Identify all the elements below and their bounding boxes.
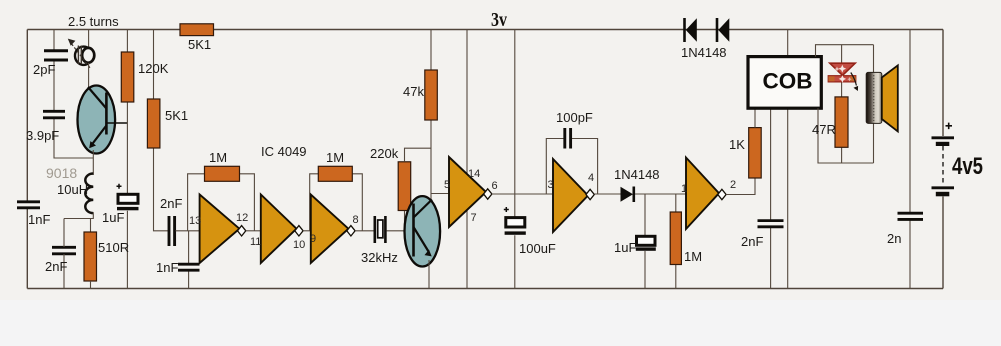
inverter U1A (pins 13,12): [200, 195, 246, 264]
svg-text:100pF: 100pF: [556, 110, 593, 125]
svg-text:100uF: 100uF: [519, 241, 556, 256]
capacitor C 2nF (right): [758, 221, 784, 227]
capacitor C 100pF: [565, 128, 571, 149]
resistor R 120K: [121, 52, 134, 102]
svg-text:11: 11: [250, 236, 261, 248]
resistor R 1M (third): [670, 212, 681, 265]
svg-text:1N4148: 1N4148: [681, 45, 727, 60]
svg-text:14: 14: [468, 168, 480, 180]
svg-text:1: 1: [681, 183, 687, 195]
svg-text:1K: 1K: [729, 137, 745, 152]
resistor R 1M (feedback 1): [205, 166, 240, 181]
wire 5K1 vertical column: [154, 30, 169, 231]
wire inverter5 out to diode: [594, 193, 620, 195]
wire LED/speaker frame: [816, 45, 874, 163]
capacitor C 2nF (bottom left): [52, 247, 76, 254]
inverter U1B (pins 11,10): [261, 195, 303, 264]
wire 1K top to COB: [754, 108, 756, 127]
wire 1uF right stems: [644, 194, 646, 289]
wire coil drop from rail: [88, 30, 90, 49]
svg-text:5: 5: [444, 179, 450, 191]
diode D1 1N4148 (top rail): [685, 18, 697, 42]
wire top rail 3v: [27, 29, 943, 31]
wire feedback loop 100pF (inverter 5): [546, 139, 597, 195]
inverter U2A (pins 3,4): [553, 159, 594, 232]
svg-text:220k: 220k: [370, 146, 399, 161]
wire 1nF shunt stems: [188, 231, 190, 289]
svg-text:7: 7: [471, 212, 477, 224]
resistor R 5K1 (series on top rail): [180, 24, 214, 36]
capacitor C 2pF: [44, 51, 68, 60]
resistor R 510R: [84, 232, 97, 289]
wire coil to transistor collector: [88, 63, 90, 90]
wire pin7 ground drop: [466, 208, 468, 289]
svg-text:3v: 3v: [491, 9, 507, 31]
capacitor C 1uF (polarized, left): [117, 184, 139, 210]
svg-text:1uF: 1uF: [614, 240, 636, 255]
wire left rail lower: [26, 208, 28, 289]
wire emitter node to 510R and 2nF: [64, 212, 93, 232]
wire feedback loop 1M (inverter 3): [310, 174, 363, 231]
svg-text:1M: 1M: [326, 150, 344, 165]
svg-text:1M: 1M: [684, 249, 702, 264]
wire COB ground pin: [787, 108, 789, 288]
capacitor C 1nF (shunt): [178, 264, 200, 270]
svg-text:1nF: 1nF: [156, 260, 178, 275]
svg-text:2pF: 2pF: [33, 62, 55, 77]
wire COB supply from rail: [787, 30, 789, 57]
svg-text:32kHz: 32kHz: [361, 250, 398, 265]
inverter U2B (pins 1,2): [686, 158, 726, 230]
svg-text:IC 4049: IC 4049: [261, 144, 307, 159]
svg-text:12: 12: [236, 212, 248, 224]
capacitor C 1uF (polarized, right): [636, 236, 656, 250]
COB module U3: [748, 57, 821, 109]
svg-text:120K: 120K: [138, 61, 169, 76]
svg-text:2nF: 2nF: [45, 259, 67, 274]
wire 1M right stems: [675, 194, 677, 289]
resistor R 47k: [425, 70, 438, 120]
wire diode out to inverter6: [635, 193, 686, 195]
svg-text:1uF: 1uF: [102, 210, 124, 225]
inverter U1C (pins 9,8): [311, 195, 355, 264]
capacitor C 3.9pF: [43, 111, 65, 118]
svg-text:5K1: 5K1: [165, 108, 188, 123]
svg-text:8: 8: [353, 214, 359, 226]
wire COB pin to 2nF right: [770, 108, 772, 288]
svg-text:6: 6: [492, 180, 498, 192]
svg-text:47k: 47k: [403, 84, 424, 99]
capacitor C 100uF (polarized): [504, 207, 526, 235]
wire Q1 emitter down: [92, 150, 94, 175]
wire Q2 emitter to ground: [428, 260, 430, 289]
wire inverter2 out to inverter3: [303, 230, 311, 232]
battery BT1 4v5: [932, 123, 955, 197]
transistor Q1 9018: [78, 86, 116, 154]
diode D3 1N4148: [621, 187, 634, 203]
svg-text:3: 3: [548, 179, 554, 191]
wire 120K column: [126, 30, 128, 289]
crystal X1 32kHz: [375, 216, 386, 243]
wire 220k bottom stem: [404, 211, 406, 231]
wire crystal to Q2 base: [387, 230, 407, 232]
LED D4: [828, 63, 858, 91]
wire 220k top to collector node: [405, 148, 432, 162]
capacitor C 1nF (left rail): [17, 202, 40, 208]
wire LED branch: [841, 45, 843, 163]
svg-text:9: 9: [310, 233, 316, 245]
svg-text:9018: 9018: [46, 165, 77, 181]
svg-text:10: 10: [293, 239, 305, 251]
wire 2nF stems: [63, 219, 65, 289]
svg-text:2.5 turns: 2.5 turns: [68, 14, 119, 29]
wire 2pF/3.9pF column: [54, 30, 93, 159]
speaker LS1: [866, 65, 898, 131]
wire feedback loop 1M (inverter 1): [188, 174, 255, 231]
svg-text:1M: 1M: [209, 150, 227, 165]
svg-text:1N4148: 1N4148: [614, 167, 660, 182]
resistor R 1M (feedback 2): [318, 166, 352, 181]
wire 100uF supply column: [514, 30, 516, 289]
svg-text:4: 4: [588, 172, 594, 184]
wire bottom rail: [27, 288, 943, 290]
svg-text:4v5: 4v5: [952, 153, 983, 180]
inductor L1 2.5 turns (adjustable): [68, 39, 94, 69]
inverter U1D (pins 5,6 / 14,7): [449, 157, 492, 227]
wire pin14 supply drop: [466, 30, 468, 179]
wire inverter6 out to 1K: [726, 178, 755, 195]
svg-text:3.9pF: 3.9pF: [26, 128, 59, 143]
svg-text:47R: 47R: [812, 122, 836, 137]
wire 47k column: [430, 30, 432, 204]
svg-text:2nF: 2nF: [741, 234, 763, 249]
wire Q1 base to 120K node: [108, 122, 128, 124]
svg-text:5K1: 5K1: [188, 37, 211, 52]
resistor R 220k: [398, 162, 411, 211]
svg-text:2: 2: [730, 179, 736, 191]
diode D2 1N4148 (top rail): [717, 18, 729, 42]
svg-text:13: 13: [189, 215, 201, 227]
transistor Q2: [405, 196, 441, 266]
resistor R 47R: [835, 97, 848, 147]
wire right rail lower: [942, 197, 944, 289]
wire input line to inverter 1: [176, 230, 200, 232]
svg-text:1nF: 1nF: [28, 212, 50, 227]
resistor R 1K: [749, 128, 762, 178]
capacitor C 2nF (series input): [169, 216, 175, 246]
resistor R 5K1 (vertical): [147, 99, 160, 148]
wire left rail: [26, 30, 28, 202]
svg-text:2n: 2n: [887, 231, 901, 246]
wire inverter4 out to inverter5: [492, 193, 553, 195]
capacitor C 2n: [898, 213, 924, 219]
wire inverter3 out to crystal: [355, 230, 374, 232]
wire right rail upper: [942, 30, 944, 137]
svg-text:COB: COB: [763, 69, 813, 94]
svg-text:2nF: 2nF: [160, 196, 182, 211]
inductor L2 10uH: [85, 174, 93, 214]
svg-text:510R: 510R: [98, 240, 129, 255]
wire inverter1 out to inverter2: [246, 230, 261, 232]
svg-text:10uH: 10uH: [57, 182, 88, 197]
wire collector node to inverter4 input: [431, 193, 449, 195]
wire 2n far right column: [909, 30, 911, 289]
